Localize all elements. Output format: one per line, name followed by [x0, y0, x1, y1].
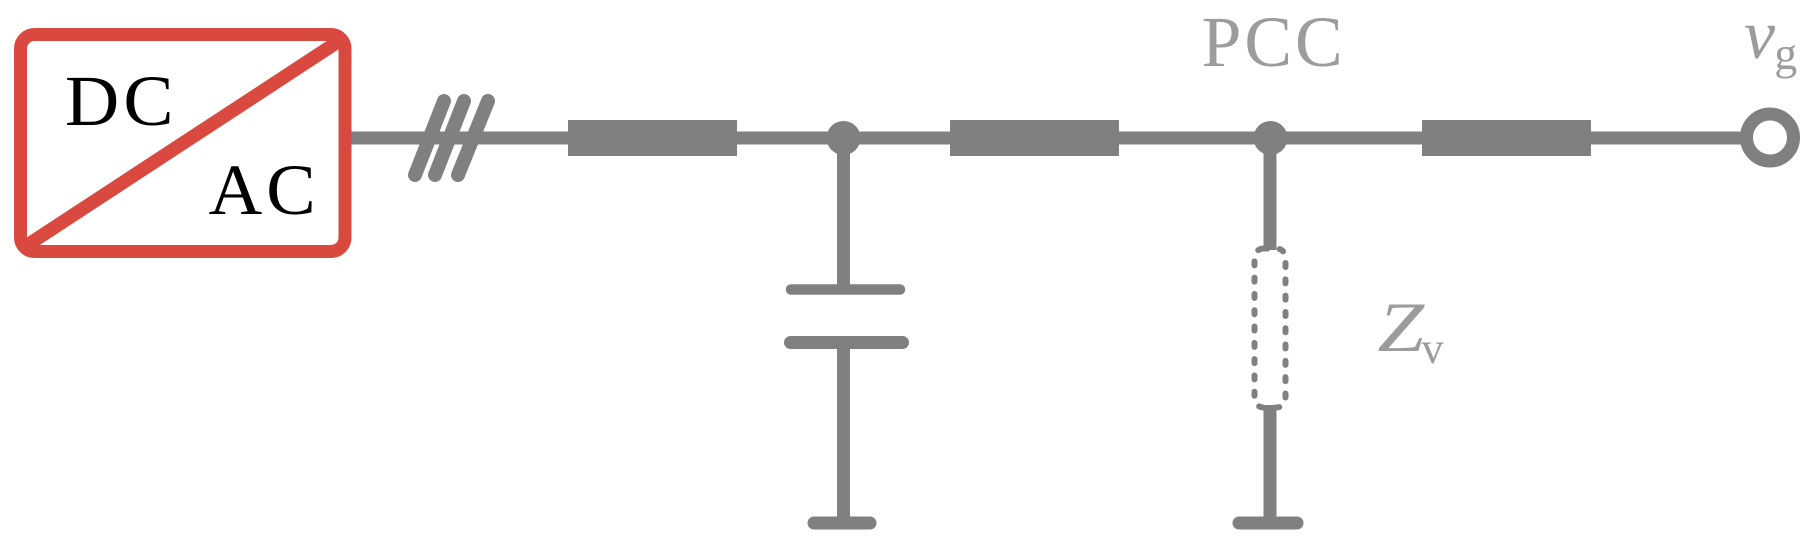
svg-text:v: v — [1422, 324, 1444, 373]
node (filter capacitor junction) — [827, 121, 861, 155]
node PCC — [1254, 121, 1288, 155]
svg-text:AC: AC — [209, 150, 320, 230]
wire capacitor branch lower — [837, 343, 850, 518]
wire Zv branch upper — [1264, 138, 1277, 250]
svg-text:g: g — [1774, 28, 1797, 79]
capacitor C1 top plate — [791, 284, 900, 295]
impedance block (grid-side series impedance) — [1422, 120, 1591, 156]
svg-text:v: v — [1744, 0, 1776, 74]
capacitor C1 bottom plate — [791, 336, 903, 349]
svg-text:DC: DC — [65, 60, 178, 140]
terminal ring vg — [1747, 114, 1794, 161]
svg-text:Z: Z — [1378, 288, 1425, 367]
wire Zv branch lower — [1264, 405, 1277, 517]
converter DC/AC box — [21, 35, 346, 252]
impedance block (converter-side series impedance) — [568, 120, 737, 156]
ground G1 — [814, 517, 870, 530]
impedance block (mid series impedance) — [950, 120, 1119, 156]
impedance Zv dashed body — [1255, 249, 1286, 408]
wire main horizontal bus — [351, 132, 1745, 145]
three-phase slash marks — [415, 101, 488, 175]
wire capacitor branch upper — [837, 138, 850, 290]
diagonal of converter box — [28, 41, 340, 245]
svg-text:PCC: PCC — [1202, 3, 1346, 82]
ground G2 — [1239, 517, 1297, 530]
